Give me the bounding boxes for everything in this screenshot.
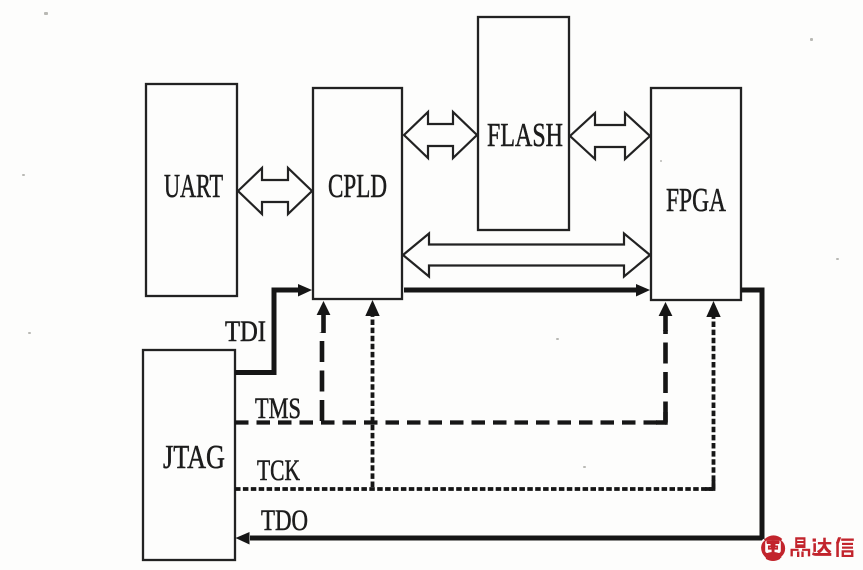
wire TMS branch to FPGA (663, 330, 668, 423)
arrowhead TMS into FPGA (659, 302, 673, 316)
double arrow UART-CPLD (238, 168, 312, 214)
arrowhead TDI into FPGA (636, 284, 650, 297)
wire TDI chain CPLD to FPGA (404, 288, 637, 293)
junction TMS corner at FPGA (656, 412, 666, 423)
svg-text:JTAG: JTAG (163, 439, 225, 476)
svg-text:TDI: TDI (225, 316, 266, 348)
watermark logo circle (760, 535, 786, 561)
wire TCK dotted horizontal (235, 487, 713, 491)
block FLASH (478, 17, 569, 230)
watermark character da (812, 538, 831, 556)
wire TCK branch to FPGA (712, 312, 716, 489)
junction TCK corner at FPGA (705, 480, 714, 489)
svg-text:CPLD: CPLD (328, 168, 387, 205)
arrowhead TCK into FPGA (706, 301, 720, 317)
double arrow FLASH-FPGA (570, 113, 650, 159)
wire TCK branch to CPLD (371, 312, 375, 487)
block UART (146, 84, 237, 296)
scan speckles (22, 12, 839, 468)
arrowhead TDO into JTAG (236, 532, 250, 545)
wire TMS dashed horizontal (235, 420, 666, 424)
svg-text:TMS: TMS (255, 393, 301, 425)
svg-text:UART: UART (164, 168, 223, 205)
double arrow CPLD-FPGA wide bus (403, 234, 650, 277)
svg-text:TDO: TDO (261, 505, 308, 537)
watermark character xin (836, 537, 854, 557)
svg-text:FLASH: FLASH (487, 117, 563, 154)
block FPGA (651, 88, 741, 300)
wire TMS branch to CPLD (320, 332, 325, 421)
arrowhead TMS into CPLD (317, 301, 331, 315)
svg-text:FPGA: FPGA (666, 182, 726, 219)
watermark character ding (791, 537, 811, 557)
wire TDI from JTAG to CPLD (235, 290, 298, 373)
block JTAG (143, 350, 235, 560)
svg-text:TCK: TCK (257, 455, 300, 487)
wire TDO from FPGA to JTAG (250, 290, 762, 538)
arrowhead TDI into CPLD (298, 284, 312, 297)
arrowhead TCK into CPLD (365, 300, 379, 316)
double arrow CPLD-FLASH (404, 112, 477, 158)
block CPLD (313, 88, 402, 299)
